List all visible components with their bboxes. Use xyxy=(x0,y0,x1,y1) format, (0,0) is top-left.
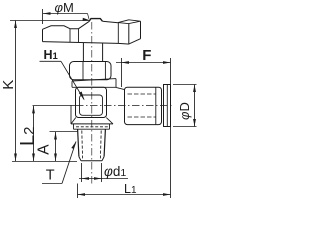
svg-text:T: T xyxy=(46,168,55,184)
svg-text:H1: H1 xyxy=(44,48,59,62)
svg-text:L1: L1 xyxy=(124,182,137,196)
svg-text:A: A xyxy=(36,144,53,155)
svg-text:φM: φM xyxy=(55,0,74,15)
svg-text:φd1: φd1 xyxy=(104,164,126,179)
svg-text:K: K xyxy=(0,80,17,90)
svg-text:φD: φD xyxy=(177,102,192,120)
svg-text:F: F xyxy=(142,47,151,64)
svg-text:L2: L2 xyxy=(17,127,39,146)
